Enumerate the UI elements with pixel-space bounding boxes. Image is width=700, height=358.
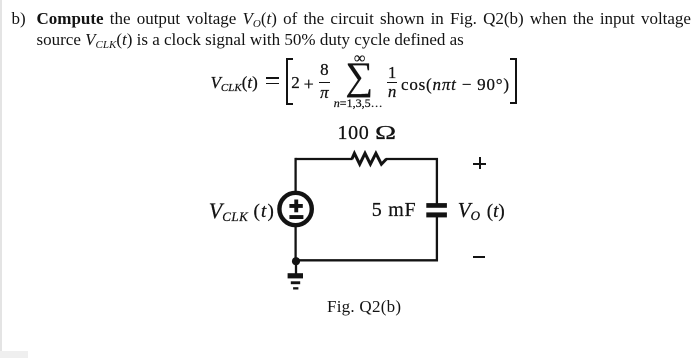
equation frac1 bar: [319, 82, 331, 84]
equation close bracket: [510, 58, 517, 104]
equation equals sign (two bars): [266, 77, 279, 79]
left page-edge line: [0, 0, 2, 358]
equation frac2 denominator n: [387, 91, 397, 93]
wire left upper (top wire to source): [294, 158, 296, 192]
equation sigma upper limit infinity: [354, 58, 365, 60]
equation sigma: [345, 76, 373, 78]
equation plus: [304, 83, 314, 85]
equation sigma lower limit: [334, 102, 383, 104]
equation frac2 numerator 1: [387, 72, 397, 74]
label VO(t): [458, 210, 480, 213]
capacitor C 5mF bottom plate: [426, 212, 447, 217]
capacitor C 5mF top plate: [426, 203, 447, 208]
wire top-left (source top to resistor): [296, 158, 353, 160]
label VCLK(t) source: [209, 211, 249, 214]
voltage source VCLK circle: [279, 193, 311, 225]
equation frac1 denominator pi: [319, 92, 331, 94]
bottom-left page corner artifact: [0, 351, 28, 358]
polarity plus (drawn): [473, 163, 486, 165]
text line 1: item label b): [12, 9, 26, 29]
text line 2: [37, 30, 464, 50]
caption Fig. Q2(b): [327, 306, 401, 308]
resistor R 100 ohm zigzag: [352, 153, 387, 164]
equation cos term: [401, 84, 510, 86]
label 5 mF: [372, 209, 416, 211]
equation 2: [291, 82, 300, 84]
wire left lower (source to bottom wire): [294, 226, 296, 260]
wire top-right (resistor to capacitor branch): [386, 158, 438, 204]
ground stub: [295, 261, 297, 274]
voltage source plus-minus symbol: [289, 200, 303, 220]
junction node dot: [292, 257, 300, 265]
ground bars: [288, 273, 303, 289]
text line 1 justified: [37, 9, 692, 29]
equation frac1 numerator 8: [319, 69, 331, 71]
equation frac2 bar: [387, 82, 397, 84]
wire right lower (capacitor to bottom wire): [296, 217, 438, 261]
equation open bracket: [286, 58, 293, 105]
equation LHS V_CLK(t): [211, 83, 258, 85]
polarity minus (drawn): [473, 256, 486, 258]
label 100 ohm: [338, 132, 391, 134]
